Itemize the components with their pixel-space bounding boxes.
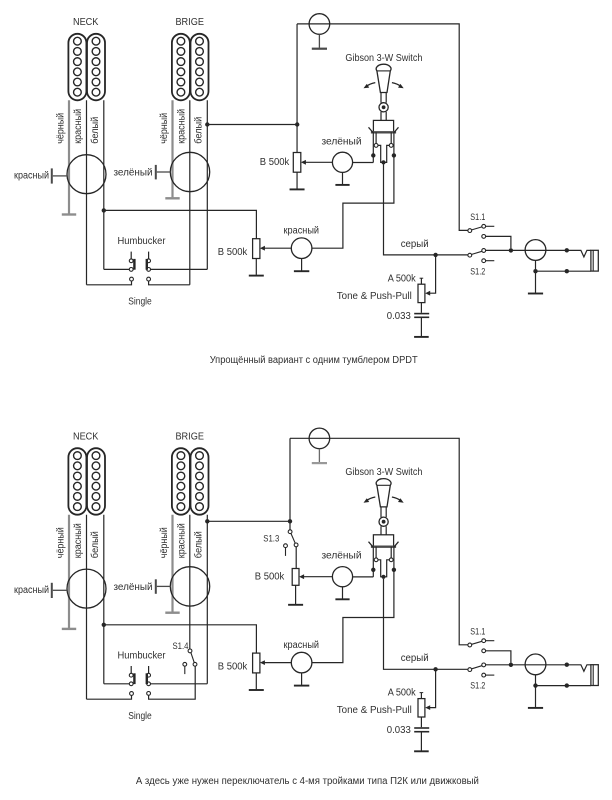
label S1.3 xyxy=(263,534,279,545)
svg-text:чёрный: чёрный xyxy=(159,113,170,144)
wire neck white to humbucker switch xyxy=(104,683,129,685)
svg-text:Single: Single xyxy=(128,297,152,308)
svg-text:красный: красный xyxy=(284,225,320,236)
svg-text:Tone & Push-Pull: Tone & Push-Pull xyxy=(337,291,412,302)
svg-text:S1.2: S1.2 xyxy=(470,266,485,277)
resistor VR2 B 500k (neck volume pot) xyxy=(249,653,264,690)
pickup NECK coil 1 (left bobbin) xyxy=(68,34,86,101)
switch SW1 common output junction xyxy=(381,575,385,579)
label серый xyxy=(401,653,429,664)
svg-text:0.033: 0.033 xyxy=(387,725,411,736)
switch humbucker section B xyxy=(146,666,151,686)
wire Single link left (neck red to switch) xyxy=(87,692,134,700)
svg-text:A 500k: A 500k xyxy=(388,688,417,699)
svg-text:красный: красный xyxy=(73,523,84,558)
label белый (bridge white wire) xyxy=(193,531,205,558)
switch SW1 Gibson 3-W toggle lever knob xyxy=(376,64,391,92)
svg-text:зелёный: зелёный xyxy=(322,136,362,147)
label B 500k (neck volume) xyxy=(218,247,248,258)
wire белый neck down xyxy=(103,100,105,269)
toggle lever shaft upper xyxy=(381,93,386,103)
wire красный bridge down to S1.4 xyxy=(189,515,191,649)
wire чёрный bridge (shield) to ground xyxy=(171,100,173,197)
ground capacitor C1 xyxy=(414,750,429,752)
svg-text:белый: белый xyxy=(193,117,205,144)
svg-text:BRIGE: BRIGE xyxy=(175,432,204,443)
toggle lever shaft lower xyxy=(381,112,386,121)
label чёрный (bridge black wire) xyxy=(159,527,170,558)
switch SW1 Gibson 3-W toggle lever knob xyxy=(376,479,391,507)
label чёрный (bridge black wire) xyxy=(159,113,170,144)
resistor VR1 ground lead xyxy=(288,585,303,605)
svg-text:красный: красный xyxy=(176,523,187,558)
label зелёный bridge lead xyxy=(114,167,153,178)
node jack sleeve junction xyxy=(533,269,537,273)
wire зелёный node to switch SW1 pin1 xyxy=(353,576,374,578)
wire чёрный bridge (shield) to ground xyxy=(171,515,173,612)
label S1.2 xyxy=(470,266,485,277)
switch S1.1 xyxy=(468,224,494,238)
terminal зелёный bridge lead xyxy=(155,165,157,180)
wire красный neck down xyxy=(86,515,88,700)
wire jack sleeve return xyxy=(536,675,591,707)
svg-text:B 500k: B 500k xyxy=(218,247,248,258)
wire S1.1 to output junction xyxy=(486,236,511,248)
toggle direction arrow right xyxy=(392,497,404,503)
terminal красный neck lead xyxy=(51,168,53,183)
switch SW1 terminal pin 2 (left inner) xyxy=(374,132,383,162)
ground neck shield xyxy=(62,628,76,630)
label B 500k (bridge volume) xyxy=(260,157,290,168)
label BRIGE xyxy=(175,17,204,28)
node neck white junction xyxy=(102,623,106,627)
label Humbucker xyxy=(118,236,167,247)
label B 500k (bridge volume) xyxy=(255,572,285,583)
label белый (neck white wire) xyxy=(89,117,101,144)
wire чёрный neck (shield) to ground xyxy=(68,515,70,628)
svg-text:серый: серый xyxy=(401,239,429,250)
node jack sleeve junction 2 xyxy=(565,269,569,273)
ground красный node xyxy=(294,673,309,686)
ground jack xyxy=(528,707,543,709)
node neck white junction xyxy=(102,208,106,212)
wire красный lead to neck circle xyxy=(53,175,67,177)
svg-text:S1.3: S1.3 xyxy=(263,534,279,545)
resistor VR2 wiper arrow and wire to красный node xyxy=(260,660,291,665)
node output junction S1.1 xyxy=(509,663,513,667)
wire серый switch common to S1.2 xyxy=(384,165,468,255)
toggle pivot xyxy=(379,517,388,526)
node jack circle xyxy=(525,240,546,261)
svg-text:Gibson 3-W Switch: Gibson 3-W Switch xyxy=(345,467,422,478)
label зелёный xyxy=(322,551,362,562)
svg-text:B 500k: B 500k xyxy=(260,157,290,168)
svg-text:зелёный: зелёный xyxy=(114,582,153,593)
svg-text:красный: красный xyxy=(284,640,320,651)
svg-text:зелёный: зелёный xyxy=(114,167,153,178)
node output junction tip xyxy=(565,248,569,252)
terminal зелёный bridge lead xyxy=(155,579,157,594)
ground jack xyxy=(528,293,543,295)
node jack sleeve junction xyxy=(533,683,537,687)
pickup NECK coil 1 (left bobbin) xyxy=(68,448,86,515)
svg-text:B 500k: B 500k xyxy=(255,572,285,583)
label A 500k xyxy=(388,688,417,699)
label чёрный (neck black wire) xyxy=(56,527,67,558)
switch S1.1 xyxy=(468,639,494,653)
wire neck white to bridge volume pot xyxy=(104,625,257,653)
resistor VR2 B 500k (neck volume pot) xyxy=(249,239,264,276)
toggle direction arrow left xyxy=(364,497,376,503)
label Single xyxy=(128,711,152,722)
wire bus corner to S1.3 xyxy=(289,438,291,529)
label S1.1 xyxy=(470,212,485,223)
svg-text:S1.1: S1.1 xyxy=(470,212,485,223)
svg-text:S1.4: S1.4 xyxy=(173,641,189,652)
node tone branch junction xyxy=(433,667,437,671)
label S1.4 xyxy=(173,641,189,652)
label красный xyxy=(284,225,320,236)
ground зелёный node xyxy=(335,587,349,600)
svg-text:Tone & Push-Pull: Tone & Push-Pull xyxy=(337,705,412,716)
label зелёный xyxy=(322,136,362,147)
pickup NECK coil 2 (right bobbin) xyxy=(87,34,105,101)
svg-text:серый: серый xyxy=(401,653,429,664)
svg-text:белый: белый xyxy=(89,117,101,144)
wire красный bridge down xyxy=(189,100,191,284)
wire bridge white to humbucker switch xyxy=(151,683,208,685)
wire output to jack xyxy=(486,665,591,672)
toggle lever shaft lower xyxy=(381,526,386,535)
wire output bus top xyxy=(297,24,468,231)
ground capacitor C1 xyxy=(414,336,429,338)
node зелёный circle xyxy=(332,152,352,172)
ground neck shield xyxy=(62,213,76,215)
resistor VR1 B 500k (bridge volume pot) xyxy=(293,24,301,172)
wire белый bridge down xyxy=(206,100,208,269)
svg-text:S1.1: S1.1 xyxy=(470,627,485,638)
svg-text:красный: красный xyxy=(73,109,84,144)
switch SW1 terminal pin 2 (left inner) xyxy=(374,547,383,577)
label серый xyxy=(401,239,429,250)
svg-text:чёрный: чёрный xyxy=(159,527,170,558)
wire зелёный lead to bridge circle xyxy=(157,585,171,587)
wire bridge white to humbucker switch xyxy=(151,268,208,270)
node зелёный circle xyxy=(332,567,352,587)
wire tone branch to VR3 wiper xyxy=(425,669,435,710)
resistor VR1 B 500k (bridge volume pot) xyxy=(292,547,299,585)
toggle direction arrow left xyxy=(364,83,376,89)
label Tone & Push-Pull xyxy=(337,291,412,302)
svg-text:Humbucker: Humbucker xyxy=(118,236,167,247)
node bridge white junction xyxy=(205,122,209,126)
wire output bus top xyxy=(290,438,468,645)
svg-text:красный: красный xyxy=(14,585,49,596)
resistor VR1 wiper arrow and wire to зелёный node xyxy=(301,160,333,165)
ground bridge shield xyxy=(165,197,179,199)
svg-text:зелёный: зелёный xyxy=(322,551,362,562)
pickup BRIGE coil 1 (left bobbin) xyxy=(172,34,190,101)
node bridge pot circle xyxy=(170,567,209,606)
svg-text:чёрный: чёрный xyxy=(56,527,67,558)
node neck pot circle xyxy=(67,155,106,194)
switch S1.2 xyxy=(468,663,494,677)
switch SW1 terminal pin 1 (left outer) xyxy=(371,132,375,162)
wire зелёный lead to bridge circle xyxy=(157,171,171,173)
node красный circle xyxy=(291,652,312,673)
ground красный node xyxy=(294,259,309,272)
label зелёный bridge lead xyxy=(114,582,153,593)
ground shield circle xyxy=(312,449,327,463)
switch SW1 common output junction xyxy=(381,160,385,164)
svg-text:чёрный: чёрный xyxy=(56,113,67,144)
pickup BRIGE coil 2 (right bobbin) xyxy=(191,34,209,101)
wire чёрный neck (shield) to ground xyxy=(68,100,70,213)
label красный xyxy=(284,640,320,651)
wire белый neck down xyxy=(103,515,105,684)
label 0.033 xyxy=(387,311,411,322)
switch SW1 terminal pin 4 (right outer) xyxy=(392,547,396,572)
wire серый switch common to S1.2 xyxy=(384,579,468,669)
wire S1.1 to output junction xyxy=(486,651,511,663)
resistor VR3 A 500k tone pot xyxy=(418,693,425,717)
switch SW1 terminal pin 3 (right inner) xyxy=(384,132,394,162)
node jack sleeve junction 2 xyxy=(565,683,569,687)
node output junction S1.1 xyxy=(509,248,513,252)
svg-text:белый: белый xyxy=(89,531,101,558)
wire Single link left (neck red to switch) xyxy=(87,277,134,285)
ground зелёный node xyxy=(335,172,349,185)
wire neck white to bridge volume pot xyxy=(104,210,257,238)
svg-text:NECK: NECK xyxy=(73,432,99,443)
resistor VR3 A 500k tone pot xyxy=(418,278,425,302)
toggle direction arrow right xyxy=(392,83,404,89)
node tone branch junction xyxy=(433,253,437,257)
svg-text:A 500k: A 500k xyxy=(388,273,417,284)
ground bridge shield xyxy=(165,612,179,614)
svg-text:B 500k: B 500k xyxy=(218,661,248,672)
wire bridge white to S1.3 xyxy=(207,520,290,522)
wire tone branch to VR3 wiper xyxy=(425,255,435,296)
node bridge pot circle xyxy=(170,152,209,191)
node neck volume pot top junction xyxy=(295,122,299,126)
switch SW1 terminal pin 3 (right inner) xyxy=(384,547,394,577)
switch SW1 body xyxy=(369,120,399,132)
svg-text:NECK: NECK xyxy=(73,17,99,28)
connector J1 output jack body xyxy=(591,250,598,271)
label красный (bridge red wire) xyxy=(176,109,187,144)
capacitor C1 0.033 xyxy=(414,717,429,751)
switch S1.4 xyxy=(183,649,197,674)
capacitor C1 0.033 xyxy=(414,303,429,337)
svg-text:А здесь уже нужен переключател: А здесь уже нужен переключатель с 4-мя т… xyxy=(136,776,479,787)
resistor VR1 wiper arrow and wire to зелёный node xyxy=(299,574,332,579)
node shield circle on bus xyxy=(309,428,330,449)
svg-text:красный: красный xyxy=(14,171,49,182)
label красный neck lead xyxy=(14,585,49,596)
caption bottom variant xyxy=(136,776,479,787)
switch SW1 terminal pin 1 (left outer) xyxy=(371,547,375,577)
label S1.1 xyxy=(470,627,485,638)
wire красный lead to neck circle xyxy=(53,589,67,591)
wire neck white to humbucker switch xyxy=(104,268,129,270)
label A 500k xyxy=(388,273,417,284)
svg-text:Humbucker: Humbucker xyxy=(118,651,167,662)
label чёрный (neck black wire) xyxy=(56,113,67,144)
switch S1.3 xyxy=(284,530,298,556)
node S1.3 top junction xyxy=(288,519,292,523)
wire S1.4 to Single link right xyxy=(147,666,195,699)
label 0.033 xyxy=(387,725,411,736)
toggle lever shaft upper xyxy=(381,507,386,517)
connector J1 output jack body xyxy=(591,665,598,686)
wire jack sleeve return xyxy=(536,260,591,292)
wire красный node to switch SW1 pin4 xyxy=(312,155,394,248)
node neck pot circle xyxy=(67,569,106,608)
label красный neck lead xyxy=(14,171,49,182)
resistor VR2 wiper arrow and wire to красный node xyxy=(260,246,291,251)
wire bridge white to neck volume pot xyxy=(207,124,297,126)
wire output to jack xyxy=(486,250,591,257)
wire красный node to switch SW1 pin4 xyxy=(312,570,394,663)
svg-text:Gibson 3-W Switch: Gibson 3-W Switch xyxy=(345,53,422,64)
pickup BRIGE coil 1 (left bobbin) xyxy=(172,448,190,515)
svg-text:S1.2: S1.2 xyxy=(470,681,485,692)
wire белый bridge down xyxy=(206,515,208,684)
caption top variant xyxy=(210,354,418,366)
label B 500k (neck volume) xyxy=(218,661,248,672)
label Humbucker xyxy=(118,651,167,662)
node jack circle xyxy=(525,654,546,675)
node bridge white junction xyxy=(205,519,209,523)
label красный (bridge red wire) xyxy=(176,523,187,558)
svg-text:0.033: 0.033 xyxy=(387,311,411,322)
switch humbucker section A xyxy=(129,252,135,272)
label BRIGE xyxy=(175,432,204,443)
label S1.2 xyxy=(470,681,485,692)
wire Single link right (bridge red to switch) xyxy=(147,277,190,285)
switch S1.2 xyxy=(468,249,494,263)
label NECK xyxy=(73,432,99,443)
wire красный neck down xyxy=(86,100,88,284)
label Tone & Push-Pull xyxy=(337,705,412,716)
terminal красный neck lead xyxy=(51,583,53,598)
label красный (neck red wire) xyxy=(73,109,84,144)
label Single xyxy=(128,297,152,308)
pickup NECK coil 2 (right bobbin) xyxy=(87,448,105,515)
label красный (neck red wire) xyxy=(73,523,84,558)
switch humbucker section B xyxy=(146,252,151,272)
svg-text:Упрощённый вариант с одним тум: Упрощённый вариант с одним тумблером DPD… xyxy=(210,354,418,366)
pickup BRIGE coil 2 (right bobbin) xyxy=(191,448,209,515)
svg-text:Single: Single xyxy=(128,711,152,722)
node shield circle on bus xyxy=(309,14,330,35)
ground shield circle xyxy=(312,34,327,48)
switch SW1 terminal pin 4 (right outer) xyxy=(392,132,396,157)
wire зелёный node to switch SW1 pin1 xyxy=(353,162,374,164)
switch SW1 body xyxy=(369,535,399,548)
label Gibson 3-W Switch xyxy=(345,467,422,478)
label Gibson 3-W Switch xyxy=(345,53,422,64)
toggle pivot xyxy=(379,103,388,112)
svg-text:белый: белый xyxy=(193,531,205,558)
node красный circle xyxy=(291,238,312,259)
resistor VR1 ground lead xyxy=(290,172,305,189)
svg-text:BRIGE: BRIGE xyxy=(175,17,204,28)
node output junction tip xyxy=(565,663,569,667)
svg-text:красный: красный xyxy=(176,109,187,144)
label NECK xyxy=(73,17,99,28)
label белый (neck white wire) xyxy=(89,531,101,558)
label белый (bridge white wire) xyxy=(193,117,205,144)
switch humbucker section A xyxy=(129,666,135,686)
